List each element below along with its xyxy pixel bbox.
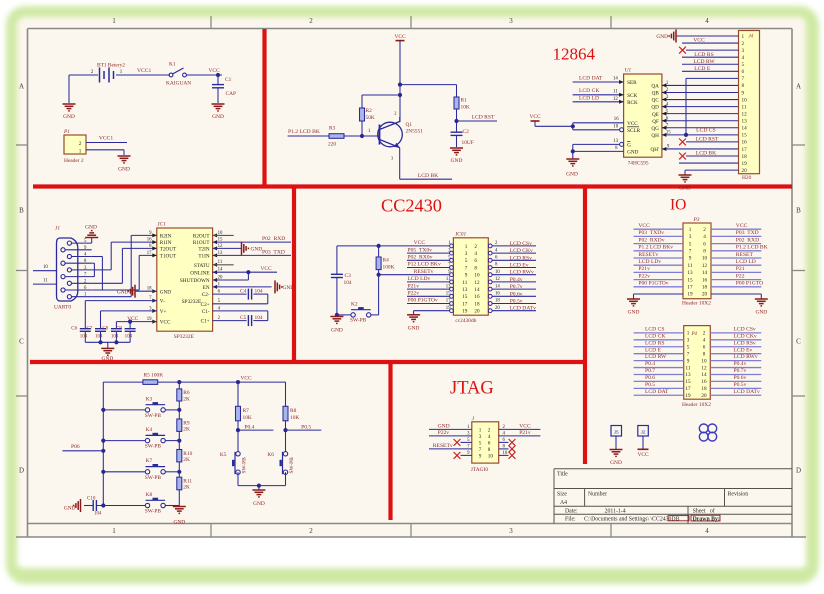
svg-text:P22v: P22v [438,430,450,436]
svg-text:15: 15 [462,294,468,300]
svg-text:LCD CSv: LCD CSv [510,241,532,247]
svg-text:K1: K1 [169,62,176,68]
svg-text:14: 14 [474,287,480,293]
svg-text:5: 5 [689,241,692,247]
svg-text:9: 9 [689,256,692,262]
svg-text:VCC: VCC [519,423,531,429]
svg-text:14: 14 [613,76,618,81]
svg-text:LCD CS: LCD CS [696,128,715,134]
svg-text:GND: GND [253,501,265,507]
svg-text:SW-PB: SW-PB [145,475,162,481]
svg-text:1: 1 [742,34,745,40]
svg-text:6: 6 [742,69,745,75]
svg-text:8: 8 [474,265,477,271]
svg-text:VCC: VCC [736,223,748,229]
svg-text:16: 16 [495,292,500,297]
svg-text:1: 1 [689,227,692,233]
svg-text:K6: K6 [267,452,274,458]
svg-text:1: 1 [79,148,82,154]
svg-text:LCD Ev: LCD Ev [510,263,529,269]
svg-text:19: 19 [446,306,451,311]
svg-text:GND: GND [63,114,75,120]
svg-text:LCD E: LCD E [645,347,662,353]
svg-text:3: 3 [448,248,451,253]
svg-text:13: 13 [462,287,468,293]
svg-text:18: 18 [474,301,480,307]
svg-text:104: 104 [255,315,263,321]
svg-text:cc2430db: cc2430db [455,318,476,324]
svg-text:R7: R7 [243,408,250,414]
svg-text:2K: 2K [183,457,190,463]
svg-text:16: 16 [701,379,707,385]
svg-text:19: 19 [742,161,748,167]
svg-text:19: 19 [685,393,691,399]
svg-text:P21v: P21v [519,430,531,436]
svg-text:14: 14 [495,284,500,289]
svg-text:13: 13 [446,284,451,289]
svg-text:P02 RX0v: P02 RX0v [408,255,433,261]
svg-text:T1OUT: T1OUT [160,254,177,260]
svg-text:IC01: IC01 [454,232,466,238]
svg-text:File:: File: [565,517,576,523]
svg-text:R2IN: R2IN [160,234,172,240]
svg-text:17: 17 [446,299,451,304]
svg-text:10: 10 [474,273,480,279]
svg-text:11: 11 [43,278,48,283]
svg-text:SP3232E: SP3232E [174,334,195,340]
svg-text:K2: K2 [351,301,358,307]
svg-text:14: 14 [702,270,708,276]
svg-text:3: 3 [465,251,468,257]
svg-text:10: 10 [742,97,748,103]
svg-text:220: 220 [328,142,336,148]
svg-text:16: 16 [702,277,708,283]
svg-text:LCD CSv: LCD CSv [734,327,756,333]
svg-text:9: 9 [687,358,690,364]
svg-text:K8: K8 [146,492,153,498]
svg-text:LCD CKv: LCD CKv [734,333,757,339]
svg-text:LCD RW: LCD RW [645,354,667,360]
svg-text:LCD RSv: LCD RSv [734,340,756,346]
svg-text:T2IN: T2IN [198,247,209,253]
svg-text:J4: J4 [749,35,754,40]
svg-text:P21: P21 [736,266,745,272]
svg-text:3: 3 [687,338,690,344]
svg-text:SHUTDOWN: SHUTDOWN [180,278,210,284]
svg-text:3: 3 [689,234,692,240]
svg-text:IC1: IC1 [157,222,166,228]
svg-text:104: 104 [80,334,88,339]
svg-text:19: 19 [462,309,468,315]
svg-text:LCD DAT: LCD DAT [579,75,603,81]
svg-text:LCD LD: LCD LD [579,95,599,101]
svg-text:4: 4 [742,55,745,61]
svg-text:R3: R3 [329,126,336,132]
svg-text:P0.4v: P0.4v [734,361,747,367]
svg-text:8: 8 [703,351,706,357]
svg-text:GND: GND [656,34,668,40]
svg-text:P03 TXD: P03 TXD [262,249,285,255]
svg-text:GND: GND [627,150,638,156]
svg-text:RESETv: RESETv [414,269,434,275]
svg-text:1: 1 [112,527,116,535]
svg-text:12: 12 [742,111,748,117]
svg-text:BT1 Betery2: BT1 Betery2 [97,63,125,69]
svg-text:Size: Size [557,492,567,498]
svg-text:12864: 12864 [553,44,596,63]
svg-text:P03 TXD: P03 TXD [736,230,759,236]
svg-text:QB: QB [652,91,660,97]
svg-text:50K: 50K [366,115,375,121]
svg-text:R10: R10 [183,451,192,457]
svg-text:17: 17 [685,386,691,392]
svg-text:U1: U1 [625,68,632,74]
svg-text:10K: 10K [461,105,470,111]
svg-text:LCD CK: LCD CK [645,333,665,339]
svg-text:P0.5: P0.5 [301,424,311,430]
svg-text:VCC: VCC [627,121,638,127]
svg-text:P1.2 LCD BKv: P1.2 LCD BKv [638,245,673,251]
svg-text:R9: R9 [183,420,190,426]
svg-text:2: 2 [394,111,396,116]
svg-text:H20: H20 [742,175,752,181]
svg-text:QH: QH [651,133,659,139]
svg-text:GND: GND [64,506,76,512]
svg-text:R8: R8 [290,408,297,414]
svg-text:6: 6 [703,241,706,247]
svg-text:C2+: C2+ [201,302,210,308]
svg-text:2K: 2K [183,396,190,402]
svg-text:C6: C6 [71,327,77,332]
svg-text:LCD DATv: LCD DATv [510,306,536,312]
svg-text:15: 15 [687,277,693,283]
svg-text:2: 2 [742,41,745,47]
svg-text:20: 20 [701,393,707,399]
svg-text:QF: QF [652,119,659,125]
svg-text:1: 1 [120,70,123,75]
svg-text:P21v: P21v [408,283,420,289]
svg-text:18: 18 [495,299,500,304]
svg-text:T2OUT: T2OUT [160,247,177,253]
svg-text:QG: QG [651,126,659,132]
svg-text:10K: 10K [290,415,299,421]
svg-text:K3: K3 [146,396,153,402]
svg-text:D: D [19,467,24,475]
svg-text:104: 104 [94,511,102,516]
svg-text:7: 7 [479,447,482,453]
svg-text:LCD RST: LCD RST [472,115,495,121]
svg-text:SW-PB: SW-PB [242,457,248,474]
svg-text:10: 10 [613,124,618,129]
svg-text:LCD BK: LCD BK [418,173,438,179]
svg-text:QD: QD [651,105,659,111]
svg-text:LCD LD: LCD LD [736,259,756,265]
svg-text:P22v: P22v [638,273,650,279]
svg-text:P3: P3 [693,217,700,223]
svg-text:1: 1 [368,129,371,134]
svg-text:SP3232E: SP3232E [182,299,201,305]
svg-text:17: 17 [687,285,693,291]
svg-text:LCD RW: LCD RW [693,59,715,65]
svg-text:LCD RWv: LCD RWv [510,270,534,276]
svg-text:Title: Title [557,472,568,478]
svg-text:Sheet of: Sheet of [693,507,715,514]
svg-text:1: 1 [112,17,116,25]
svg-text:GND: GND [212,114,224,120]
svg-text:R1IN: R1IN [160,240,172,246]
svg-text:C7: C7 [87,327,93,332]
svg-text:14: 14 [701,372,707,378]
svg-text:104: 104 [125,334,133,339]
svg-text:QA: QA [651,84,659,90]
svg-text:9: 9 [448,270,451,275]
svg-text:P22: P22 [736,273,745,279]
svg-text:GND: GND [451,158,463,164]
svg-text:P12 LCD BKv: P12 LCD BKv [408,262,441,268]
svg-text:GND: GND [610,460,622,466]
svg-text:12: 12 [702,263,708,269]
svg-text:P0.4: P0.4 [244,424,254,430]
svg-text:CC2430: CC2430 [381,196,442,216]
svg-text:C1+: C1+ [201,319,210,325]
svg-text:LCD CK: LCD CK [579,88,599,94]
svg-text:GND: GND [566,172,578,178]
svg-text:2: 2 [309,527,313,535]
svg-text:GND: GND [408,325,420,331]
svg-text:P1.2 LCD BK: P1.2 LCD BK [288,129,320,135]
svg-text:P21v: P21v [638,266,650,272]
svg-text:P0.6: P0.6 [645,375,655,381]
svg-text:16: 16 [742,140,748,146]
svg-text:P0.7v: P0.7v [510,284,523,290]
svg-text:P00 P1GTOv: P00 P1GTOv [638,281,668,287]
svg-text:9: 9 [479,454,482,460]
svg-text:11: 11 [446,277,451,282]
svg-text:4: 4 [495,248,498,253]
svg-text:QC: QC [652,98,660,104]
svg-text:LCD RS: LCD RS [645,340,664,346]
svg-text:K5: K5 [220,452,227,458]
svg-text:P1.2 LCD BK: P1.2 LCD BK [736,245,768,251]
svg-text:LCD RWv: LCD RWv [734,354,758,360]
svg-text:P02 RXDv: P02 RXDv [638,237,664,243]
svg-text:Drawn By:: Drawn By: [693,517,720,523]
svg-text:20: 20 [702,292,708,298]
svg-text:1: 1 [448,241,451,246]
svg-text:C5: C5 [240,315,247,321]
svg-text:Number: Number [588,492,607,498]
svg-text:VCC1: VCC1 [137,68,152,74]
svg-text:11: 11 [686,365,691,371]
svg-text:ONLINE: ONLINE [190,270,209,276]
svg-text:1: 1 [687,331,690,337]
svg-text:JTAG: JTAG [450,379,494,399]
svg-text:7: 7 [689,249,692,255]
svg-text:104: 104 [255,288,263,294]
svg-text:C:\Documents and Settings\ \CC: C:\Documents and Settings\ \CC2430DB [584,517,680,523]
svg-text:P0.6v: P0.6v [510,291,523,297]
svg-text:P1: P1 [63,129,70,135]
svg-text:2011-1-4: 2011-1-4 [605,508,626,514]
svg-text:C10: C10 [87,497,96,502]
svg-text:11: 11 [613,89,618,94]
svg-text:GND: GND [679,186,691,192]
svg-text:3: 3 [742,48,745,54]
svg-text:5: 5 [479,441,482,447]
svg-text:15: 15 [685,379,691,385]
svg-text:4: 4 [488,434,491,440]
svg-text:P02 RXD: P02 RXD [736,237,759,243]
svg-text:C: C [796,338,801,346]
svg-text:R2: R2 [366,108,373,114]
svg-text:R2OUT: R2OUT [193,234,211,240]
svg-text:9: 9 [742,90,745,96]
svg-text:12: 12 [495,277,500,282]
svg-text:R1: R1 [461,98,468,104]
svg-text:11: 11 [742,104,747,110]
svg-text:P0.4v: P0.4v [510,277,523,283]
svg-text:GND: GND [118,167,130,173]
svg-text:17: 17 [742,147,748,153]
svg-text:2: 2 [474,244,477,250]
svg-text:19: 19 [687,292,693,298]
svg-text:R5 100K: R5 100K [144,373,164,379]
svg-text:GND: GND [755,310,767,316]
svg-text:R1OUT: R1OUT [193,240,211,246]
svg-text:B: B [796,207,801,215]
svg-text:8: 8 [488,447,491,453]
svg-text:P22v: P22v [408,291,420,297]
svg-text:16: 16 [147,238,152,243]
svg-text:GND: GND [85,225,97,231]
svg-text:Header 10X2: Header 10X2 [682,402,711,408]
svg-text:104: 104 [111,334,119,339]
svg-text:12: 12 [701,365,707,371]
svg-text:VCC: VCC [637,452,648,458]
svg-text:RESETv: RESETv [433,443,453,449]
svg-text:LCD Ev: LCD Ev [734,347,753,353]
svg-text:13: 13 [685,372,691,378]
svg-text:C8: C8 [102,327,108,332]
svg-text:V+: V+ [160,309,167,315]
svg-text:LCD RSv: LCD RSv [510,255,532,261]
svg-text:3: 3 [479,434,482,440]
svg-text:2: 2 [309,17,313,25]
svg-text:P03 TXDv: P03 TXDv [638,230,664,236]
svg-text:10K: 10K [243,415,252,421]
svg-text:SW-PB: SW-PB [350,318,367,324]
svg-text:GND: GND [331,328,343,334]
svg-text:KAIGUAN: KAIGUAN [166,81,191,87]
svg-text:SCLR: SCLR [627,128,641,134]
svg-text:2: 2 [703,227,706,233]
svg-text:6: 6 [703,344,706,350]
svg-text:2K: 2K [183,427,190,433]
svg-text:C2: C2 [463,129,470,135]
svg-text:Q1: Q1 [406,122,413,128]
svg-text:2: 2 [488,428,491,434]
svg-text:16: 16 [614,117,619,122]
svg-text:QH': QH' [650,147,658,153]
svg-text:7: 7 [742,76,745,82]
svg-text:11: 11 [462,280,467,286]
svg-text:UART0: UART0 [54,305,71,311]
svg-text:LCD BK: LCD BK [696,151,716,157]
svg-text:P00 P1GTOv: P00 P1GTOv [408,298,438,304]
svg-text:9: 9 [465,273,468,279]
svg-text:8: 8 [703,249,706,255]
svg-text:4: 4 [703,234,706,240]
svg-text:10: 10 [701,358,707,364]
svg-text:IO: IO [670,197,686,214]
svg-text:K7: K7 [146,458,153,464]
svg-text:P0.5v: P0.5v [510,299,523,305]
svg-text:J5: J5 [614,429,619,434]
svg-text:3: 3 [509,17,513,25]
svg-text:6: 6 [488,441,491,447]
svg-text:CAP: CAP [226,91,237,97]
svg-text:5: 5 [448,256,451,261]
svg-text:LCD CKv: LCD CKv [510,248,533,254]
svg-text:VCC: VCC [414,240,426,246]
svg-text:VCC: VCC [529,114,540,120]
svg-text:2N5551: 2N5551 [406,129,424,135]
svg-text:16: 16 [474,294,480,300]
svg-text:VCC: VCC [240,375,251,381]
svg-text:P0.6v: P0.6v [734,375,747,381]
svg-text:10: 10 [702,256,708,262]
svg-text:J: J [472,416,475,422]
svg-text:VCC: VCC [638,223,650,229]
svg-text:15: 15 [742,133,748,139]
svg-text:A: A [19,83,24,91]
svg-text:7: 7 [687,351,690,357]
svg-text:D: D [796,467,801,475]
svg-text:104: 104 [95,334,103,339]
svg-text:GND: GND [438,423,450,429]
svg-text:4: 4 [703,338,706,344]
svg-text:20: 20 [742,168,748,174]
svg-text:4: 4 [705,527,709,535]
svg-text:5: 5 [742,62,745,68]
svg-text:A4: A4 [560,500,567,506]
svg-text:13: 13 [687,270,693,276]
svg-text:SW-PB: SW-PB [289,457,295,474]
svg-text:K4: K4 [146,427,153,433]
svg-text:C: C [19,338,24,346]
svg-text:P0.5v: P0.5v [734,382,747,388]
svg-text:P06: P06 [71,444,80,450]
svg-text:G: G [627,143,631,149]
svg-text:Revision: Revision [728,492,749,498]
svg-text:5: 5 [687,344,690,350]
svg-text:LCD LDv: LCD LDv [408,276,431,282]
svg-text:13: 13 [613,139,618,144]
svg-text:LCD CS: LCD CS [645,327,664,333]
svg-text:P4: P4 [691,332,698,337]
svg-text:P0.4: P0.4 [645,361,655,367]
svg-text:18: 18 [702,285,708,291]
svg-text:4: 4 [705,17,709,25]
svg-text:VCC: VCC [394,34,405,40]
svg-text:74HC595: 74HC595 [628,160,649,166]
svg-text:P0.7v: P0.7v [734,368,747,374]
svg-text:C1: C1 [225,77,232,83]
svg-text:4: 4 [474,251,477,257]
svg-text:QE: QE [652,112,659,118]
svg-text:18: 18 [742,154,748,160]
svg-text:3: 3 [509,527,513,535]
